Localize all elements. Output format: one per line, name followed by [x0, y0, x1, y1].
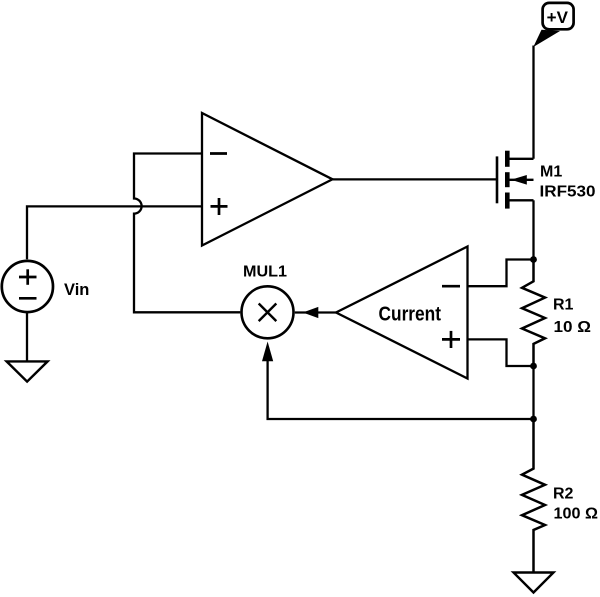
- svg-text:Current: Current: [379, 303, 442, 325]
- ground (left): [7, 361, 48, 381]
- svg-text:+V: +V: [547, 8, 569, 27]
- wire U2 plus input to node B: [468, 339, 534, 366]
- node B junction dot: [530, 363, 537, 370]
- svg-text:IRF530: IRF530: [540, 184, 596, 201]
- svg-text:R2: R2: [553, 485, 574, 502]
- svg-text:MUL1: MUL1: [243, 264, 287, 281]
- svg-text:10 Ω: 10 Ω: [554, 319, 592, 336]
- ground (right): [514, 573, 554, 593]
- node C junction dot: [530, 416, 537, 423]
- op-amp U2 Current sense: [336, 247, 468, 379]
- wire +V to M1 drain: [532, 46, 534, 159]
- svg-text:M1: M1: [540, 164, 562, 181]
- voltage source Vin: [2, 261, 90, 312]
- resistor R1: [522, 260, 591, 367]
- wire Vin to U1 plus input: [27, 206, 202, 259]
- svg-text:100 Ω: 100 Ω: [554, 505, 599, 522]
- wire M1 source to node A: [532, 200, 534, 259]
- transistor M1 IRF530: [497, 151, 596, 209]
- resistor R2: [522, 419, 598, 573]
- svg-text:R1: R1: [553, 297, 574, 314]
- wire U2 output to MUL1 with arrow: [295, 307, 336, 318]
- wire MUL1 output to U1 minus (feedback, hops over Vin wire): [134, 154, 240, 313]
- multiplier MUL1: [242, 264, 294, 339]
- svg-text:Vin: Vin: [64, 281, 89, 299]
- op-amp U1: [202, 113, 333, 246]
- power supply +V flag: [533, 3, 573, 47]
- wire node C to MUL1 bottom with up arrow: [262, 342, 534, 420]
- node A junction dot: [530, 256, 537, 263]
- wire U1 output to M1 gate: [333, 178, 497, 180]
- wire U2 minus input to node A: [468, 260, 534, 287]
- wire node B to node C: [532, 366, 534, 419]
- wire Vin to ground: [26, 313, 28, 361]
